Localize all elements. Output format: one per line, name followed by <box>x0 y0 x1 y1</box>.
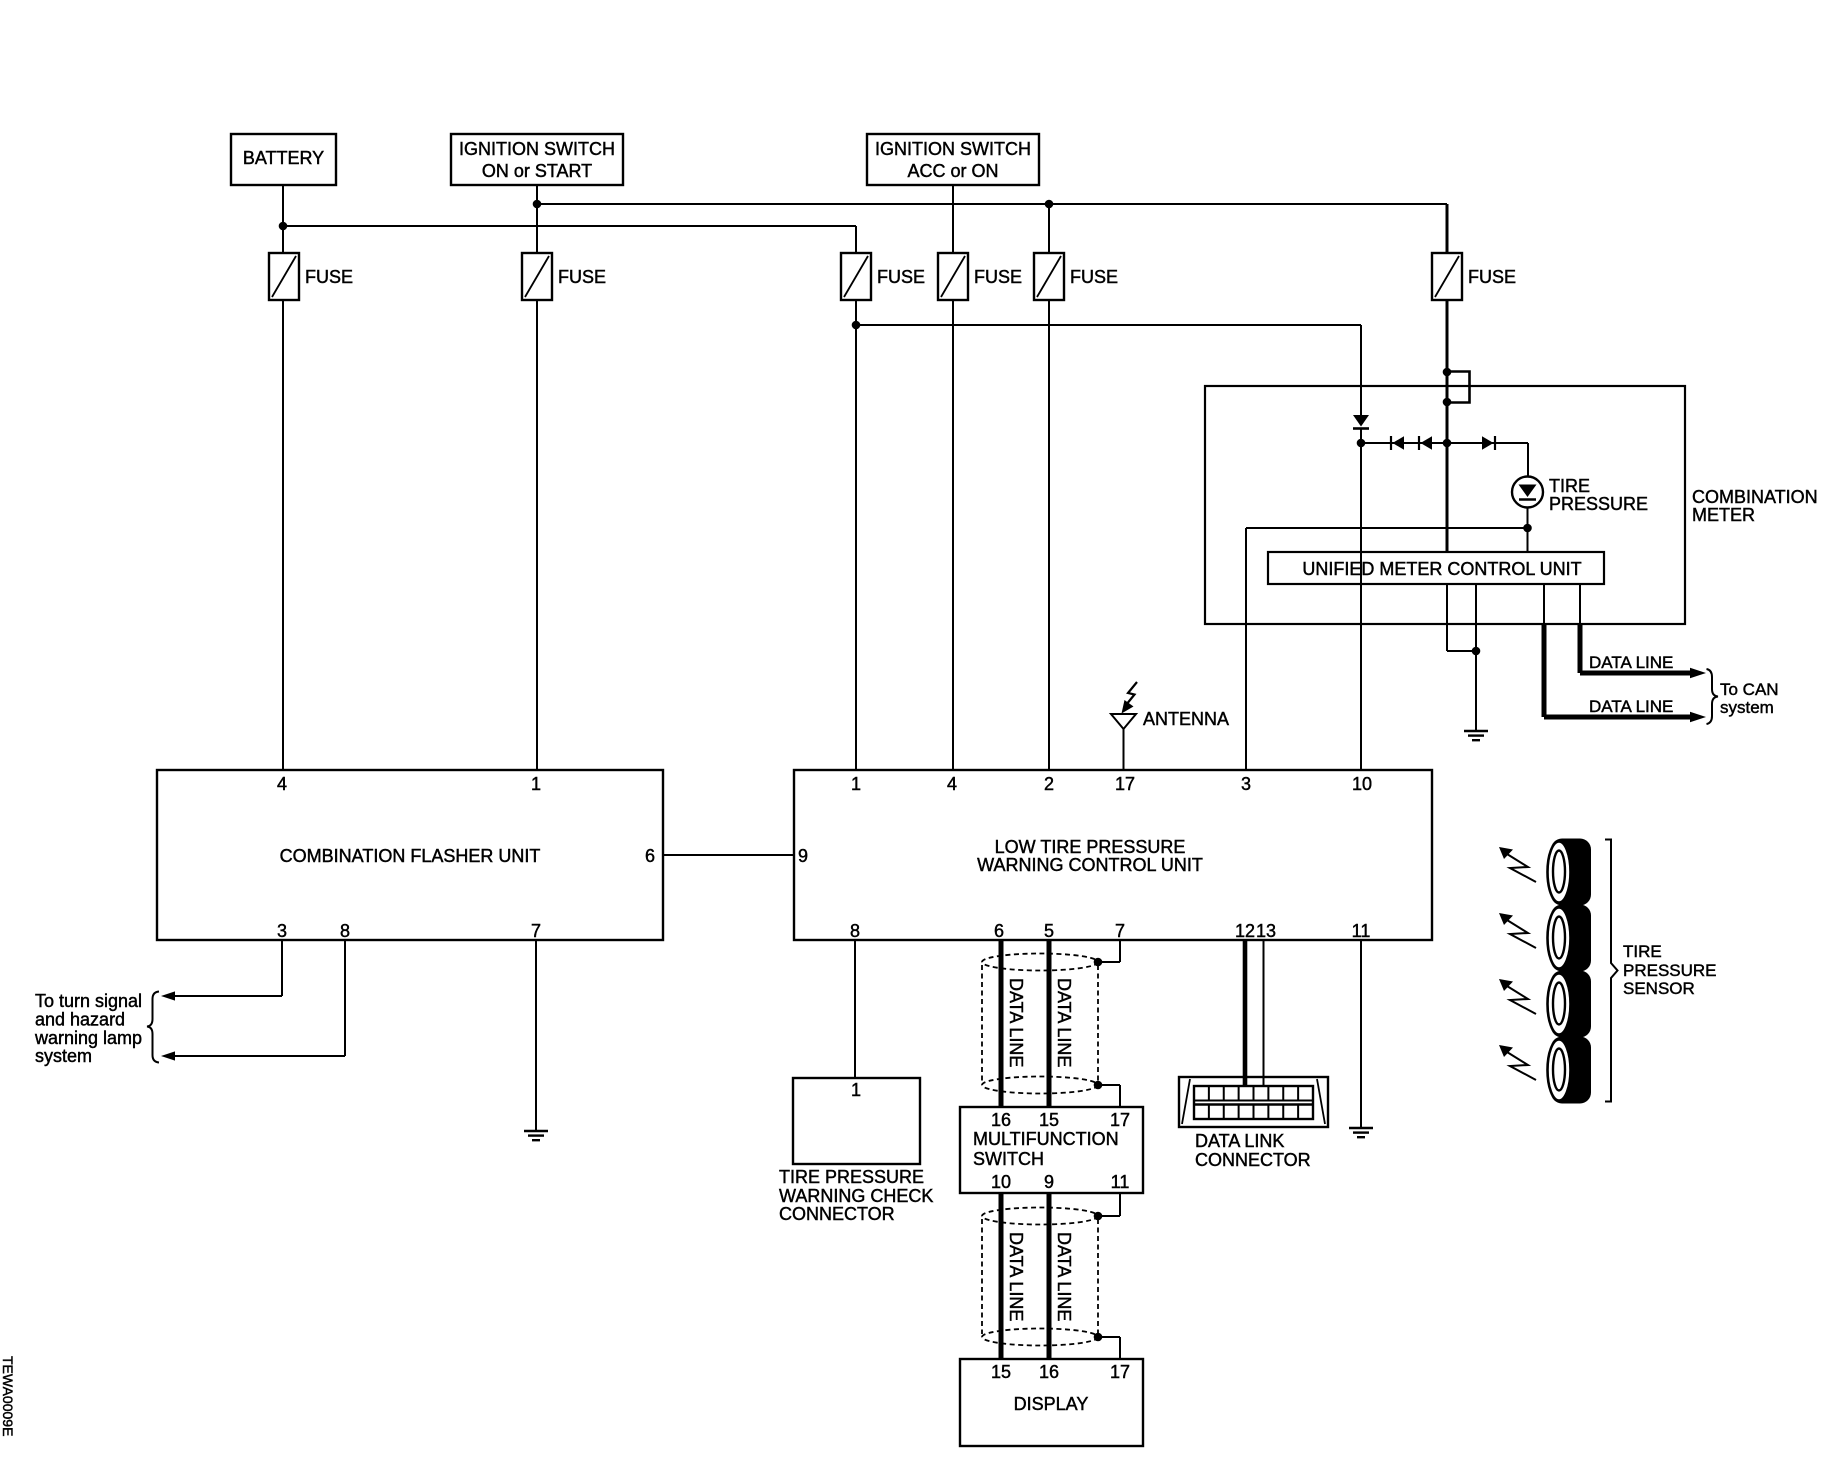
svg-text:12: 12 <box>1235 921 1255 941</box>
svg-text:IGNITION SWITCH: IGNITION SWITCH <box>459 139 615 159</box>
svg-text:FUSE: FUSE <box>305 267 353 287</box>
svg-text:TEWA0009E: TEWA0009E <box>0 1356 16 1436</box>
svg-text:COMBINATION: COMBINATION <box>1692 487 1818 507</box>
svg-text:ON or START: ON or START <box>482 161 592 181</box>
svg-text:DATA LINE: DATA LINE <box>1054 978 1074 1067</box>
svg-text:TIRE: TIRE <box>1623 942 1662 961</box>
svg-text:DATA LINK: DATA LINK <box>1195 1131 1284 1151</box>
svg-text:15: 15 <box>991 1362 1011 1382</box>
svg-text:TIRE PRESSURE: TIRE PRESSURE <box>779 1167 924 1187</box>
svg-text:5: 5 <box>1044 921 1054 941</box>
svg-text:4: 4 <box>947 774 957 794</box>
svg-text:6: 6 <box>994 921 1004 941</box>
svg-text:LOW TIRE PRESSURE: LOW TIRE PRESSURE <box>995 837 1186 857</box>
svg-text:16: 16 <box>991 1110 1011 1130</box>
svg-text:UNIFIED METER CONTROL UNIT: UNIFIED METER CONTROL UNIT <box>1302 559 1581 579</box>
svg-text:DATA LINE: DATA LINE <box>1006 978 1026 1067</box>
svg-text:6: 6 <box>645 846 655 866</box>
svg-text:DATA LINE: DATA LINE <box>1006 1232 1026 1321</box>
svg-text:16: 16 <box>1039 1362 1059 1382</box>
svg-text:ACC or ON: ACC or ON <box>907 161 998 181</box>
svg-text:FUSE: FUSE <box>558 267 606 287</box>
svg-text:11: 11 <box>1111 1172 1130 1192</box>
svg-text:10: 10 <box>1352 774 1372 794</box>
svg-text:DATA LINE: DATA LINE <box>1589 653 1673 672</box>
svg-text:4: 4 <box>277 774 287 794</box>
svg-text:CONNECTOR: CONNECTOR <box>779 1204 895 1224</box>
svg-text:METER: METER <box>1692 505 1755 525</box>
svg-text:DATA LINE: DATA LINE <box>1589 697 1673 716</box>
svg-text:FUSE: FUSE <box>877 267 925 287</box>
svg-text:FUSE: FUSE <box>974 267 1022 287</box>
svg-text:and hazard: and hazard <box>35 1010 125 1030</box>
svg-text:To turn signal: To turn signal <box>35 991 142 1011</box>
svg-text:warning lamp: warning lamp <box>34 1028 142 1048</box>
svg-text:WARNING CHECK: WARNING CHECK <box>779 1186 933 1206</box>
svg-text:11: 11 <box>1352 921 1371 941</box>
svg-text:15: 15 <box>1039 1110 1059 1130</box>
svg-text:9: 9 <box>1044 1172 1054 1192</box>
svg-text:DISPLAY: DISPLAY <box>1014 1394 1089 1414</box>
svg-text:1: 1 <box>851 1080 861 1100</box>
svg-text:FUSE: FUSE <box>1070 267 1118 287</box>
svg-text:2: 2 <box>1044 774 1054 794</box>
svg-text:17: 17 <box>1110 1362 1130 1382</box>
svg-text:ANTENNA: ANTENNA <box>1143 709 1229 729</box>
svg-text:13: 13 <box>1256 921 1276 941</box>
svg-text:DATA LINE: DATA LINE <box>1054 1232 1074 1321</box>
svg-text:3: 3 <box>277 921 287 941</box>
svg-text:PRESSURE: PRESSURE <box>1623 961 1717 980</box>
svg-text:1: 1 <box>531 774 541 794</box>
svg-text:FUSE: FUSE <box>1468 267 1516 287</box>
svg-text:system: system <box>1720 698 1774 717</box>
svg-text:7: 7 <box>531 921 541 941</box>
svg-text:SENSOR: SENSOR <box>1623 979 1695 998</box>
svg-text:1: 1 <box>851 774 861 794</box>
svg-text:PRESSURE: PRESSURE <box>1549 494 1648 514</box>
svg-text:8: 8 <box>340 921 350 941</box>
svg-text:TIRE: TIRE <box>1549 476 1590 496</box>
svg-text:BATTERY: BATTERY <box>243 148 324 168</box>
svg-text:17: 17 <box>1110 1110 1130 1130</box>
svg-text:MULTIFUNCTION: MULTIFUNCTION <box>973 1129 1119 1149</box>
svg-text:To CAN: To CAN <box>1720 680 1779 699</box>
svg-text:WARNING CONTROL UNIT: WARNING CONTROL UNIT <box>977 855 1203 875</box>
svg-text:17: 17 <box>1115 774 1135 794</box>
svg-text:9: 9 <box>798 846 808 866</box>
svg-text:COMBINATION FLASHER UNIT: COMBINATION FLASHER UNIT <box>280 846 541 866</box>
svg-text:8: 8 <box>850 921 860 941</box>
svg-text:7: 7 <box>1115 921 1125 941</box>
svg-text:3: 3 <box>1241 774 1251 794</box>
svg-text:10: 10 <box>991 1172 1011 1192</box>
svg-text:system: system <box>35 1046 92 1066</box>
svg-text:SWITCH: SWITCH <box>973 1149 1044 1169</box>
svg-text:CONNECTOR: CONNECTOR <box>1195 1150 1311 1170</box>
svg-text:IGNITION SWITCH: IGNITION SWITCH <box>875 139 1031 159</box>
